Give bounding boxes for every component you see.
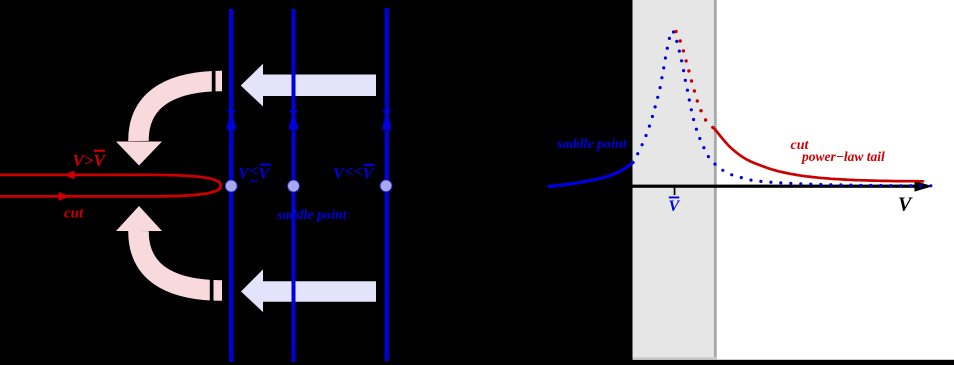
gray band right edge xyxy=(714,0,717,360)
node dot on flux line 2 xyxy=(288,180,300,192)
svg-text:V: V xyxy=(238,166,250,183)
flux line 2 xyxy=(292,9,296,362)
label V lesssim Vbar (blue) xyxy=(238,163,271,189)
svg-text:cut: cut xyxy=(64,206,84,222)
label V>Vbar (dark red) xyxy=(73,150,107,170)
black slit on top pink arrow xyxy=(212,69,216,94)
svg-text:V: V xyxy=(333,166,345,183)
red hairpin streamline (V > Vbar) xyxy=(0,175,221,197)
label V << Vbar (blue) xyxy=(333,164,375,183)
svg-text:V: V xyxy=(363,166,375,183)
red arrowhead on top hairpin line (pointing left) xyxy=(63,171,75,180)
pink recirculation arrow (top), curved band xyxy=(138,81,222,141)
arrowhead on flux line 2 xyxy=(289,111,299,130)
label Vbar (below axis, blue) xyxy=(669,197,681,216)
red arrowhead on bottom hairpin line (pointing right) xyxy=(59,192,71,201)
arrowhead on flux line 3 xyxy=(382,111,392,130)
svg-text:saddle point: saddle point xyxy=(276,208,348,223)
red dotted curve (inside band) xyxy=(674,30,677,33)
arrowhead on flux line 1 xyxy=(226,111,236,130)
node dot on flux line 1 xyxy=(225,180,237,192)
blue dotted curve (saddle-point gaussian + tail) xyxy=(631,161,634,164)
pink recirculation arrow (bottom), curved band xyxy=(138,231,222,291)
svg-text:saddle point: saddle point xyxy=(556,137,628,152)
lavender block arrow (top, pointing left) xyxy=(241,64,376,107)
lavender block arrow (bottom, pointing left) xyxy=(241,269,376,312)
svg-text:V: V xyxy=(259,166,271,183)
black slit on bottom pink arrow xyxy=(210,279,214,304)
svg-text:power−law tail: power−law tail xyxy=(801,149,885,164)
node dot on flux line 3 xyxy=(380,180,392,192)
red solid power-law tail curve xyxy=(714,128,923,181)
svg-text:~: ~ xyxy=(250,174,258,189)
V axis line xyxy=(630,185,916,188)
white plot area xyxy=(717,0,954,360)
blue solid curve (left of saddle region) xyxy=(549,163,633,187)
svg-text:V: V xyxy=(898,194,913,216)
V axis arrowhead xyxy=(915,181,933,192)
flux line 1 xyxy=(229,9,233,362)
pink arrowhead (top, pointing down) xyxy=(116,142,162,166)
svg-text:V: V xyxy=(669,198,681,215)
gray band bottom edge xyxy=(633,357,717,360)
svg-text:<<: << xyxy=(345,164,363,181)
pink arrowhead (bottom, pointing up) xyxy=(116,206,162,231)
Vbar tick mark xyxy=(674,188,676,195)
svg-text:V>V: V>V xyxy=(73,151,107,170)
flux line 3 xyxy=(385,8,389,361)
gray saddle-region band xyxy=(633,0,717,360)
